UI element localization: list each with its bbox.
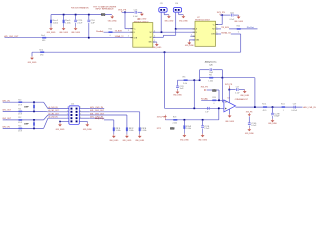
node CH2_OUT junction (33, 119, 35, 121)
svg-text:GND_DGND: GND_DGND (268, 123, 277, 125)
wire CH2_OUT fan-in (44, 115, 48, 120)
ground C28 (272, 119, 274, 121)
wire TX_BUS row (104, 31, 133, 33)
svg-text:R5: R5 (183, 77, 186, 79)
wire NO row to IC2 (162, 31, 196, 33)
wire feedback to output (222, 77, 255, 79)
svg-text:49.9: 49.9 (18, 131, 22, 133)
ground R2 (126, 134, 128, 136)
wire CH2_IN fan-in (44, 118, 48, 128)
wire bias row (165, 119, 219, 121)
svg-text:3V3_PS: 3V3_PS (118, 9, 127, 11)
wire C13 to ground (138, 11, 142, 13)
svg-text:3V3_PS: 3V3_PS (225, 84, 233, 86)
svg-text:GND_DGND: GND_DGND (123, 140, 132, 142)
svg-text:0R0: 0R0 (40, 54, 43, 56)
wire J16 pin2 to gnd (178, 12, 180, 15)
wire J15 pin1 down (160, 12, 162, 32)
svg-text:B: B (134, 32, 135, 34)
resistor R10 DNP vertical (33, 120, 35, 128)
wire row to R2 (90, 114, 127, 116)
node feedback junction right (222, 77, 224, 79)
svg-text:5: 5 (191, 34, 192, 36)
svg-text:GND_DGND: GND_DGND (234, 21, 243, 23)
wire left drop to gnd (31, 52, 33, 56)
wire R16 drop (63, 15, 65, 20)
svg-text:R22: R22 (237, 25, 240, 27)
svg-text:A_CH2_IN: A_CH2_IN (49, 116, 59, 119)
node bias junction R4 (184, 119, 186, 121)
node output feedback tap (254, 106, 256, 108)
ground C27 (244, 90, 246, 92)
wire J14 right stub row 1 (79, 108, 90, 110)
ground C30 (248, 128, 250, 130)
svg-text:GND_DGND: GND_DGND (225, 121, 234, 123)
wire J14 pin10 to gnd (79, 120, 87, 122)
svg-text:GND_DGND: GND_DGND (135, 140, 144, 142)
svg-text:SIGNAL_TX: SIGNAL_TX (115, 35, 124, 38)
wire -in to op-amp (221, 100, 223, 102)
svg-text:A_CH1_OUT: A_CH1_OUT (49, 109, 60, 112)
wire op-amp output (236, 106, 303, 108)
svg-text:1uF: 1uF (180, 88, 184, 90)
svg-text:B: B (196, 32, 197, 34)
wire C27 to gnd (239, 89, 245, 91)
capacitor C23 1uF to gnd (177, 80, 179, 85)
ground IC2 gnd pin (189, 39, 195, 41)
svg-text:Res1: Res1 (281, 104, 285, 106)
node CH2_IN junction (33, 128, 35, 130)
node -in junction (218, 99, 220, 101)
svg-text:R23: R23 (173, 116, 176, 118)
svg-text:ADJ_CH1_IN: ADJ_CH1_IN (303, 106, 316, 109)
resistor R26 1.00k inline (209, 77, 213, 79)
resistor R12 49.9 (18, 119, 22, 121)
capacitor C24 2.2uF to gnd (202, 120, 204, 126)
node CH1_IN junction (33, 101, 35, 103)
resistor R2 1.00k (126, 127, 128, 131)
capacitor C18 (230, 14, 233, 17)
wire J14 pin9 to gnd (60, 120, 69, 122)
svg-text:0: 0 (110, 35, 111, 37)
svg-text:GND_DGND: GND_DGND (28, 62, 37, 64)
svg-text:V+: V+ (134, 28, 136, 30)
wire +in row (165, 107, 224, 109)
svg-text:TRI_BUS: TRI_BUS (221, 27, 229, 29)
ground R3 (139, 134, 141, 136)
ground J15 (168, 15, 170, 17)
wire drop to lower network (164, 52, 166, 108)
pin stubs IC1 right (153, 31, 162, 33)
ground IC1 pin2 (156, 41, 158, 44)
node bias junction C24 (202, 119, 204, 121)
wire CH2_IN row (3, 127, 44, 129)
svg-text:180pF: 180pF (274, 116, 279, 118)
wire 3V3 to C18 (222, 14, 230, 16)
wire R25 node to +in (193, 80, 195, 108)
svg-text:1: 1 (283, 110, 284, 112)
svg-text:0.01uF: 0.01uF (291, 110, 297, 112)
svg-text:1.00k: 1.00k (65, 22, 71, 24)
svg-text:C18: C18 (230, 12, 234, 14)
svg-text:1uF: 1uF (205, 111, 208, 113)
pin stubs IC1 right dark (153, 31, 155, 33)
wire J14 right stub row 2 (79, 111, 90, 113)
IC U7 body (195, 21, 216, 46)
svg-text:GND_DGND: GND_DGND (152, 47, 161, 49)
wire TRI row (229, 28, 258, 30)
IC U5 body (133, 23, 153, 48)
svg-text:GND_DGND: GND_DGND (47, 32, 56, 34)
node CH1_OUT junction (33, 111, 35, 113)
ground J14 right (86, 123, 88, 125)
svg-text:R20: R20 (109, 29, 112, 31)
capacitor C28 180pF to gnd (272, 107, 274, 113)
svg-text:4: 4 (216, 32, 217, 34)
svg-text:J16: J16 (175, 3, 178, 5)
svg-text:1.00k: 1.00k (208, 81, 213, 83)
svg-text:2.2uF: 2.2uF (204, 128, 209, 130)
wire CH2_OUT row (3, 119, 44, 121)
svg-text:ATL_CH1_IN: ATL_CH1_IN (90, 106, 103, 109)
svg-text:3V3_PS: 3V3_PS (217, 12, 226, 14)
node +in junction bias (218, 107, 220, 109)
svg-text:A_CH2_OUT: A_CH2_OUT (49, 112, 60, 115)
ground C13 (141, 12, 143, 14)
node 3V3 junction IC2 (219, 14, 221, 15)
svg-text:INPUT IMPEDANCE: INPUT IMPEDANCE (96, 8, 115, 11)
node feedback junction left (199, 79, 201, 81)
resistor R11 49.9 (18, 111, 22, 113)
resistor R15 (50, 20, 52, 24)
wire C10 to signal (88, 23, 90, 38)
capacitor C29 inline (293, 106, 296, 109)
wire termination bus (51, 14, 112, 16)
node J16 junction (175, 28, 177, 30)
svg-text:AdjSig: AdjSig (95, 117, 104, 120)
capacitor C30 0.1uF (248, 122, 251, 125)
svg-text:1.00k: 1.00k (141, 130, 146, 132)
resistor R21 0R0 inline (42, 37, 46, 39)
wire CH1_IN row (3, 101, 44, 103)
svg-text:C27: C27 (236, 87, 239, 89)
svg-text:1.00k: 1.00k (116, 130, 121, 132)
svg-text:NT1: NT1 (157, 128, 161, 130)
svg-text:GND_DGND: GND_DGND (71, 32, 80, 34)
svg-text:GND_DGND: GND_DGND (173, 95, 182, 97)
ground C24 (202, 134, 204, 136)
svg-text:3: 3 (128, 30, 129, 32)
svg-text:OPA330AIDCKT: OPA330AIDCKT (235, 98, 248, 101)
svg-text:0R0: 0R0 (42, 40, 45, 42)
svg-text:3V3_PS: 3V3_PS (157, 117, 165, 119)
svg-text:C29: C29 (293, 104, 296, 106)
resistor R1 1.00k (113, 127, 115, 131)
ground long wire (31, 56, 33, 58)
wire V+ bypass (229, 89, 235, 91)
wire 3V3 down to IC2 V+ (221, 15, 223, 25)
svg-text:4: 4 (128, 36, 129, 38)
svg-text:C26: C26 (209, 65, 212, 67)
wire J14 right stub row 3 (79, 114, 90, 116)
node output junction C28 (272, 106, 274, 108)
ground R16 (63, 27, 65, 29)
resistor R9 DNP vertical (33, 102, 35, 111)
svg-text:2.00k: 2.00k (173, 123, 178, 125)
wire CH1_OUT fan-in (44, 110, 48, 112)
pin stub IC2 right TRI (216, 28, 222, 30)
wire SIGNAL_RX elbow (231, 33, 241, 35)
svg-text:R12: R12 (18, 117, 21, 119)
component NT1 DNP (170, 127, 174, 129)
wire C9 drop (75, 15, 77, 20)
node signal/C10 junction (88, 37, 90, 39)
svg-text:GND_DGND: GND_DGND (245, 133, 254, 135)
svg-text:R13: R13 (18, 99, 21, 101)
resistor R19 DNP on bus (101, 14, 105, 16)
node bus junction 1 (63, 14, 65, 16)
wire bias up to +in (218, 108, 220, 120)
svg-text:GND_DGND: GND_DGND (185, 45, 194, 47)
op-amp U8 triangle (224, 100, 236, 112)
svg-text:3V3_PS: 3V3_PS (201, 86, 209, 88)
svg-text:10pF: 10pF (209, 72, 213, 74)
wire signal row ATL_CH1_OUT (5, 37, 133, 39)
svg-text:FOR LVDS TERMINATION: FOR LVDS TERMINATION (71, 7, 89, 10)
capacitor C13 (134, 11, 137, 14)
svg-text:GND_DGND: GND_DGND (165, 21, 174, 23)
svg-text:GND_DGND: GND_DGND (180, 139, 189, 141)
resistor R23 2.00k (173, 119, 177, 121)
svg-text:DNP: DNP (101, 14, 105, 16)
resistor R28 inline (282, 106, 286, 108)
svg-text:1.00k: 1.00k (129, 130, 134, 132)
resistor R24 0R (212, 100, 216, 102)
svg-text:J15: J15 (160, 3, 163, 5)
resistor R7 DNP (212, 89, 216, 91)
svg-text:GND_DGND: GND_DGND (83, 129, 92, 131)
svg-text:49.9: 49.9 (18, 114, 22, 116)
svg-text:2: 2 (154, 40, 155, 42)
node bus junction 2 (75, 14, 77, 16)
svg-text:1uF: 1uF (91, 22, 95, 24)
resistor R13 49.9 (18, 101, 22, 103)
ground C18 (238, 15, 240, 17)
resistor R18 0R0 inline (40, 51, 44, 53)
resistor R16 (63, 20, 65, 24)
wire R25 row (178, 79, 200, 81)
capacitor C9 (74, 19, 77, 22)
svg-text:2.0k: 2.0k (183, 83, 187, 85)
svg-text:SIGNAL_RX: SIGNAL_RX (221, 31, 231, 34)
node R25 junction down (193, 79, 195, 81)
svg-text:Res1: Res1 (262, 104, 266, 106)
svg-text:0.1uF: 0.1uF (235, 93, 239, 95)
wire NC zigzag to IC2 pin1 (162, 35, 164, 37)
svg-text:GND_DGND: GND_DGND (108, 21, 117, 23)
resistor R20 0R (108, 31, 112, 33)
ground R1 (113, 134, 115, 136)
resistor R25 2.0k (184, 79, 188, 81)
ground C23 (177, 90, 179, 92)
node bus junction 3 (88, 14, 90, 16)
capacitor C26 parallel loop (200, 69, 210, 71)
svg-text:TX_BUS: TX_BUS (115, 30, 123, 32)
svg-text:RxOut: RxOut (247, 26, 255, 29)
capacitor C25 1uF inline (206, 107, 209, 110)
pin stubs IC2 right dark (216, 24, 218, 26)
wire feedback down to -in (221, 78, 223, 101)
ground J16 (182, 15, 184, 17)
svg-text:Res1: Res1 (41, 35, 45, 37)
pin stubs IC1 left dark (130, 28, 132, 30)
svg-text:0: 0 (214, 103, 215, 105)
svg-text:49.9: 49.9 (18, 122, 22, 124)
ground C9 (75, 27, 77, 29)
svg-text:J14: J14 (71, 104, 74, 106)
wire bus left drop (50, 15, 52, 20)
node long wire junction (164, 51, 166, 53)
ground J14 left (59, 123, 61, 125)
wire C18 to ground (234, 14, 239, 16)
svg-text:49.9: 49.9 (18, 104, 22, 106)
svg-text:GND_DGND: GND_DGND (59, 32, 68, 34)
wire CH1_IN fan-in (44, 102, 48, 108)
wire row to R3 (90, 111, 140, 113)
svg-text:4: 4 (154, 30, 155, 32)
wire row to R1 (104, 119, 114, 121)
svg-text:AdjSigGamma: AdjSigGamma (205, 60, 217, 63)
svg-text:C13: C13 (134, 10, 138, 12)
resistor R22 0R (237, 28, 241, 30)
svg-text:49.9: 49.9 (263, 110, 267, 112)
node +in junction R25 (193, 107, 195, 109)
svg-text:DNP: DNP (170, 128, 174, 130)
wire feedback row (200, 77, 223, 79)
wire J16 pin1 down (175, 12, 177, 29)
node 3V3 junction IC1 (121, 11, 123, 12)
svg-text:R6: R6 (209, 74, 212, 76)
svg-text:V+: V+ (213, 24, 215, 26)
svg-text:R24: R24 (212, 97, 215, 99)
capacitor C10 (88, 15, 90, 20)
ground R4 (183, 134, 185, 136)
svg-text:A_CH1_IN: A_CH1_IN (49, 106, 59, 109)
resistor R4 2.00k to gnd (183, 120, 185, 125)
svg-text:2.00k: 2.00k (186, 128, 191, 130)
svg-text:6: 6 (216, 27, 217, 29)
svg-text:GND_DGND: GND_DGND (56, 129, 65, 131)
ground bus end (111, 15, 113, 17)
pin stub IC2 pin5 (190, 35, 195, 37)
svg-text:0.1uF: 0.1uF (251, 125, 256, 127)
wire 3V3 down to IC1 pin5 (124, 12, 126, 28)
node J15/bus junction (161, 31, 163, 33)
resistor R14 49.9 (18, 128, 22, 130)
wire J14 right stub row 4 (79, 117, 90, 119)
pin stub IC2 right COM (216, 33, 222, 35)
svg-text:GND_DGND: GND_DGND (179, 21, 188, 23)
svg-text:ResAdj: ResAdj (96, 30, 104, 33)
svg-text:6: 6 (154, 36, 155, 38)
wire long signal row (32, 51, 241, 53)
resistor R3 1.00k (139, 127, 141, 131)
wire 3V3 to C13 (125, 11, 134, 13)
wire J15 pin2 to gnd (163, 12, 165, 15)
svg-text:Res1: Res1 (39, 50, 43, 52)
capacitor C27 0.1uF (235, 88, 238, 91)
resistor R27 49.9 (263, 106, 267, 108)
svg-text:DNP: DNP (212, 90, 216, 92)
svg-text:1.00k: 1.00k (53, 22, 59, 24)
ground R15 (50, 27, 52, 29)
wire -in row (201, 99, 224, 101)
svg-text:R11: R11 (18, 109, 21, 111)
wire CH1_OUT row (3, 110, 44, 112)
svg-text:GND_DGND: GND_DGND (240, 95, 249, 97)
svg-text:R14: R14 (18, 126, 21, 128)
svg-text:0: 0 (238, 32, 239, 34)
op-amp V- to ground (229, 109, 231, 114)
pin stubs IC2 left dark (193, 28, 195, 30)
svg-text:GND_DGND: GND_DGND (109, 140, 118, 142)
wire DNP to -in node (217, 89, 220, 91)
svg-text:GND_DGND: GND_DGND (198, 139, 207, 141)
svg-text:2.2uF: 2.2uF (77, 22, 82, 24)
